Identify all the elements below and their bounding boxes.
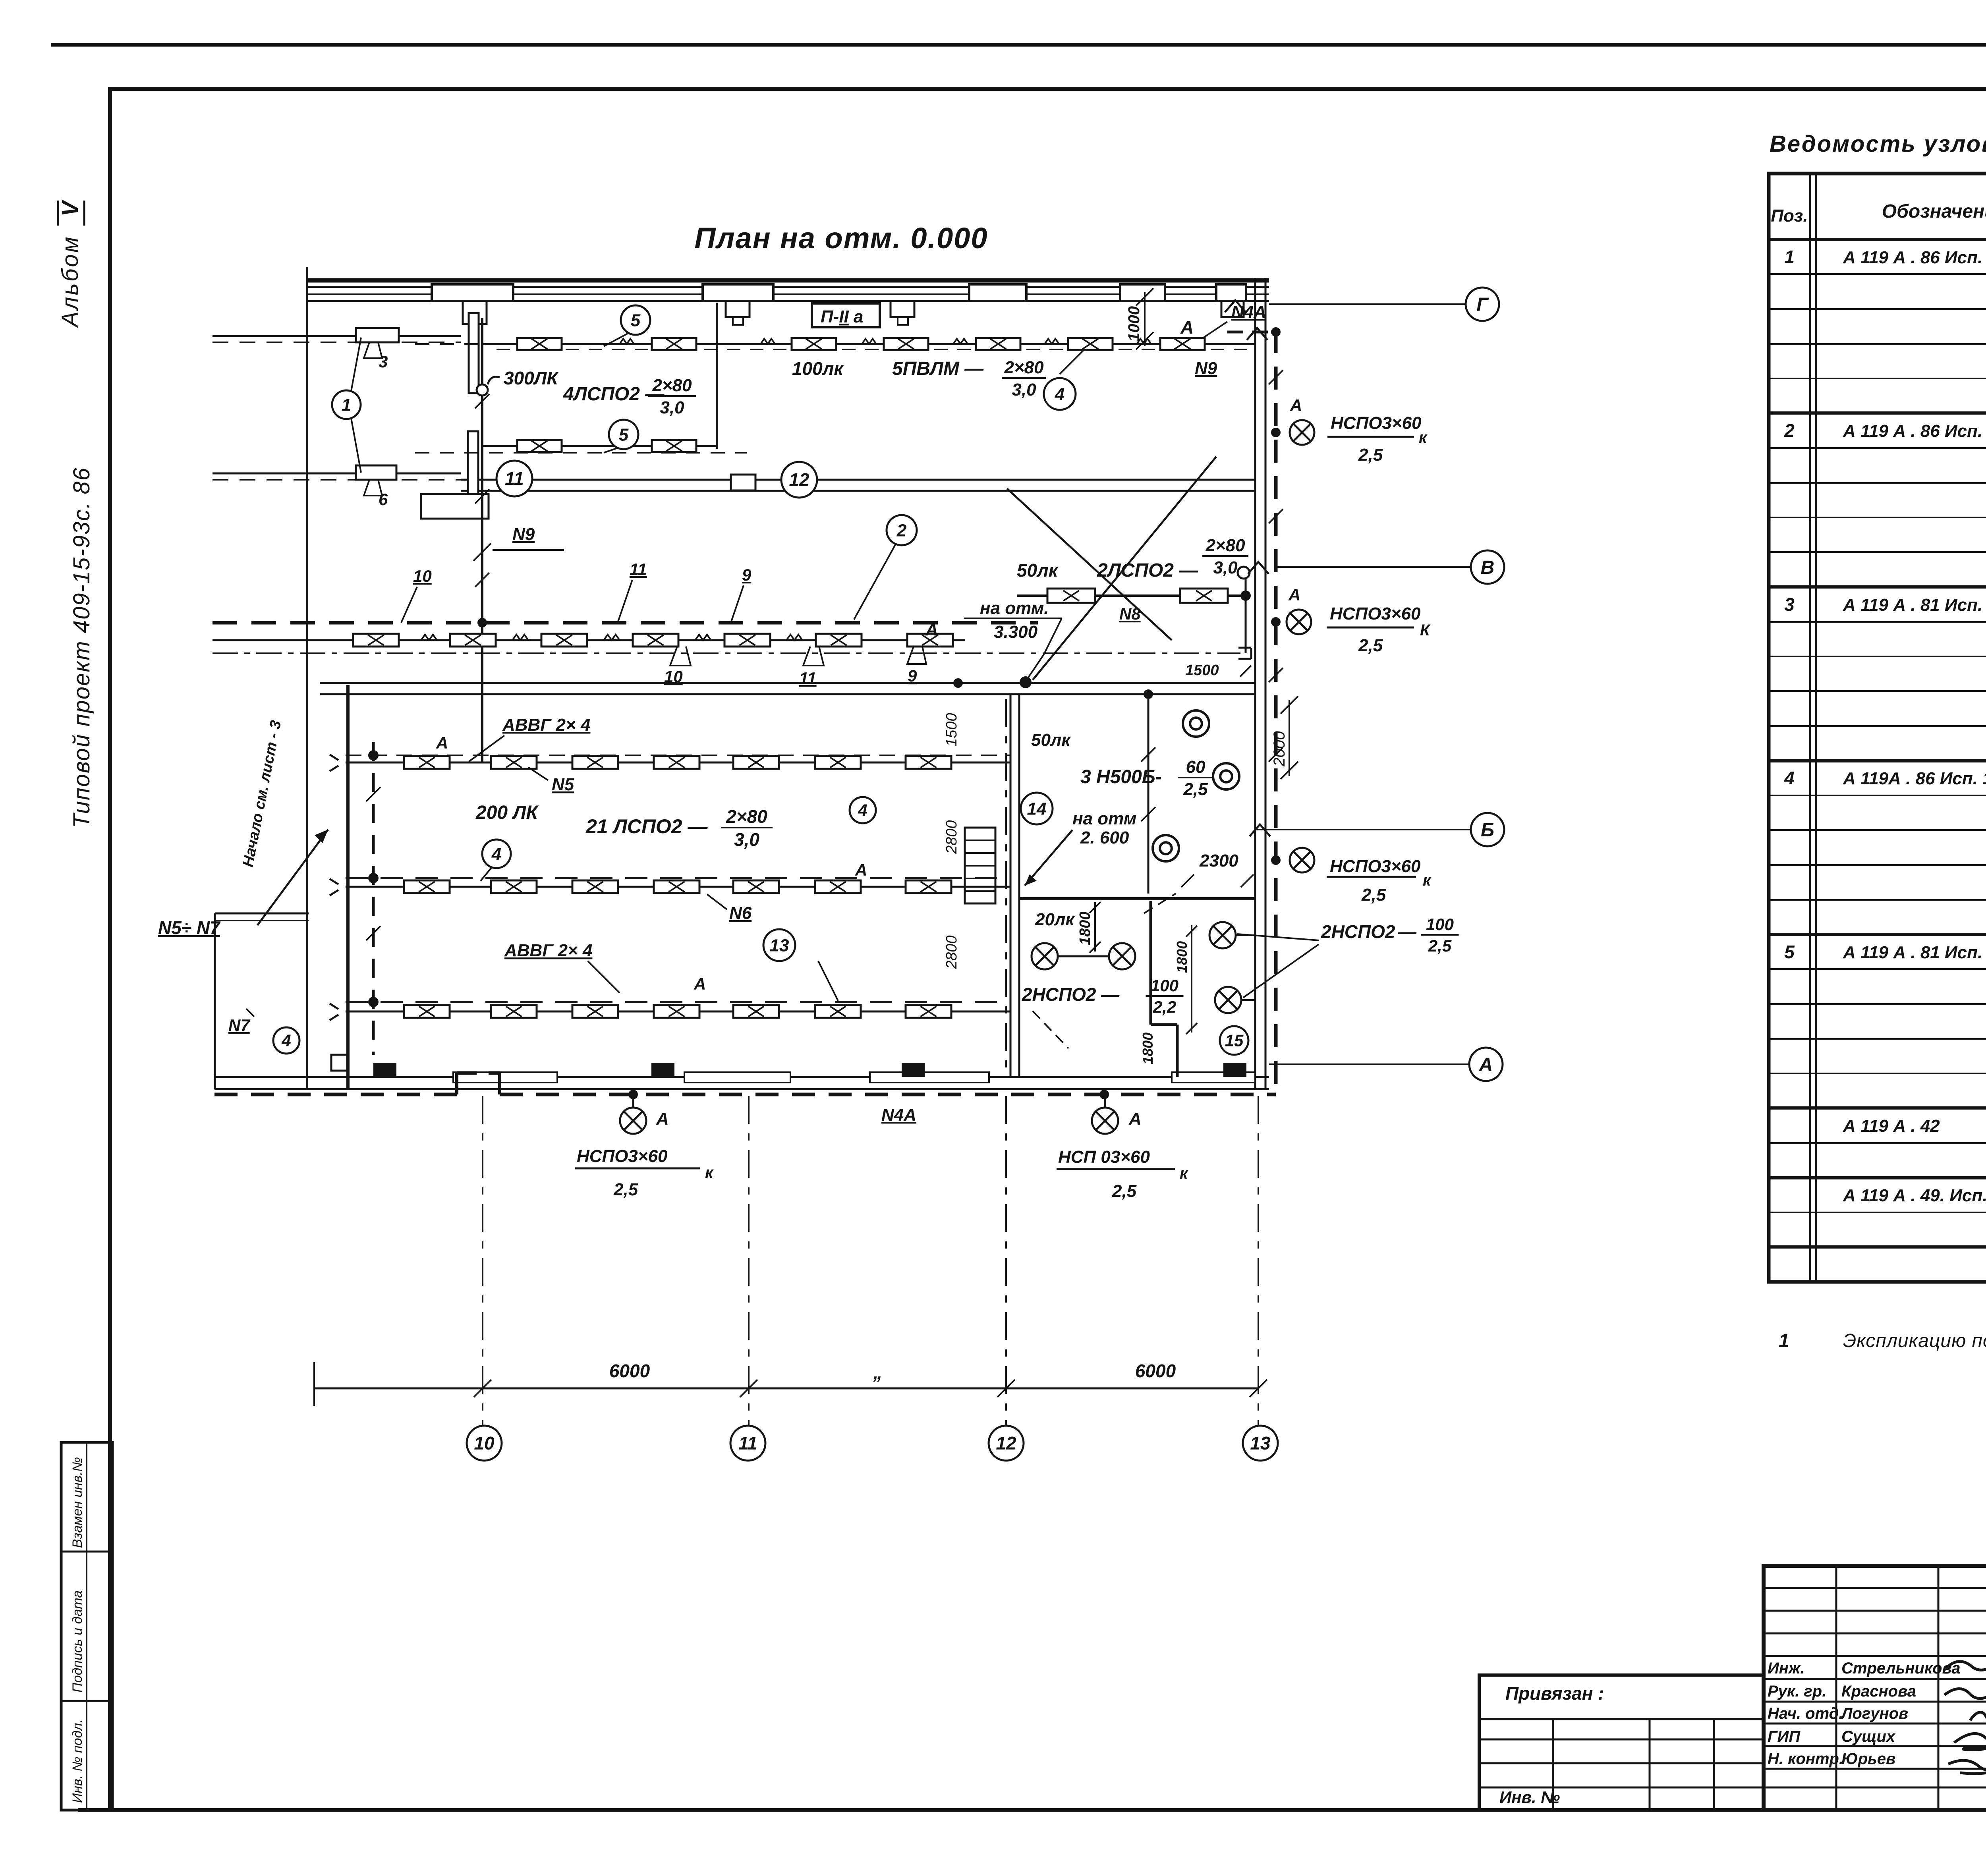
svg-text:2ЛСПО2 —: 2ЛСПО2 — [1097,560,1198,581]
svg-text:21 ЛСПО2 —: 21 ЛСПО2 — [585,815,708,838]
small junction dots on feeders [953,678,963,688]
axis verticals below building [482,1096,483,1426]
svg-text:Инж.: Инж. [1768,1660,1805,1677]
left exterior wall [306,267,308,1089]
svg-text:14: 14 [1027,799,1047,818]
svg-text:НСПО3×60: НСПО3×60 [1330,604,1421,623]
axis leader A [1269,1063,1469,1065]
2LSPO2 row [1017,594,1246,597]
svg-text:А: А [925,620,938,639]
svg-text:2800: 2800 [943,935,960,969]
svg-text:НСП 03×60: НСП 03×60 [1058,1147,1150,1167]
svg-text:А: А [656,1109,669,1129]
room circle 13 [763,929,795,961]
svg-text:2,5: 2,5 [1358,636,1383,655]
svg-text:3,0: 3,0 [734,829,759,850]
svg-text:Сущих: Сущих [1841,1728,1896,1745]
top wall window sills [432,284,513,301]
dimension line bottom [314,1388,1258,1390]
svg-text:4: 4 [858,801,867,820]
axis leader V [1276,566,1471,568]
svg-text:А: А [1288,585,1300,604]
labels below central feeder leaders [670,647,691,666]
svg-text:1000: 1000 [1125,306,1143,342]
axis circle 4 row2 right [850,797,876,823]
table frame [1769,174,1986,1282]
svg-text:3: 3 [1784,594,1795,615]
svg-text:N6: N6 [729,903,752,923]
bottom cable N4A heavy dashed [214,1093,457,1096]
bottom axis circles [467,1426,502,1461]
svg-text:—: — [1398,921,1417,942]
svg-text:12: 12 [789,469,809,490]
signatures squiggles [1944,1661,1986,1670]
svg-text:В: В [1481,557,1495,578]
axis leader G [1269,303,1466,305]
table header row [1769,238,1986,241]
svg-text:2НСПО2 —: 2НСПО2 — [1022,984,1120,1005]
svg-text:2×80: 2×80 [652,376,692,395]
svg-text:2,5: 2,5 [613,1180,638,1199]
svg-text:6000: 6000 [1135,1361,1176,1381]
svg-text:3: 3 [379,352,388,371]
wall between room 14 and lower [1019,897,1255,900]
hall row N5 [346,762,1010,764]
bottom lamp left [620,1108,646,1134]
table rows [1769,273,1986,275]
svg-text:4: 4 [491,844,501,864]
hall row N6 [346,886,1010,888]
svg-text:3,0: 3,0 [660,398,684,417]
right cable corner top [1227,331,1276,334]
svg-text:2×80: 2×80 [1205,536,1245,555]
svg-text:А: А [855,861,867,879]
svg-text:1500: 1500 [943,713,960,747]
room5 lower luminaire row [482,445,717,447]
title block outer [1764,1566,1986,1810]
svg-text:60: 60 [1186,757,1206,777]
svg-text:2,5: 2,5 [1358,445,1383,465]
title block staff rows [1764,1678,1986,1680]
svg-text:4: 4 [281,1031,291,1050]
right cable heavy dashed [1274,330,1278,1089]
bottom exterior wall [214,1076,1269,1078]
svg-text:на отм.: на отм. [980,598,1049,618]
svg-text:Юрьев: Юрьев [1841,1750,1895,1768]
svg-text:2×80: 2×80 [726,806,767,827]
svg-text:2000: 2000 [1271,731,1288,767]
svg-text:Привязан :: Привязан : [1505,1683,1604,1704]
svg-text:2,2: 2,2 [1153,998,1176,1016]
svg-text:1500: 1500 [1185,662,1219,679]
svg-text:А: А [1290,396,1302,415]
svg-text:15: 15 [1225,1031,1244,1050]
svg-text:Н. контр.: Н. контр. [1768,1750,1843,1768]
svg-text:13: 13 [770,936,789,955]
svg-text:Взамен инв.№: Взамен инв.№ [70,1457,85,1548]
room15 dims 1800 [1191,925,1192,1033]
svg-text:1: 1 [342,395,351,415]
room15 lamps [1209,922,1236,948]
svg-text:11: 11 [630,560,647,579]
svg-text:А 119 А . 49. Исп. 2 .: А 119 А . 49. Исп. 2 . [1843,1186,1986,1205]
junction dot na otm [1020,676,1032,688]
svg-text:50лк: 50лк [1017,560,1059,581]
wire riser N9 vertical [481,455,483,623]
svg-text:1: 1 [1779,1330,1789,1351]
svg-text:2800: 2800 [943,820,960,854]
vertical wall right of hall [1010,694,1012,1077]
svg-text:к: к [1180,1165,1188,1182]
svg-text:5: 5 [1784,942,1795,962]
svg-text:300ЛК: 300ЛК [504,368,559,388]
caret hook marks on right wall [1247,328,1267,340]
svg-text:3,0: 3,0 [1012,380,1036,400]
room circle 11 [496,461,532,496]
svg-text:А: А [436,733,448,752]
svg-text:3 Н500Б-: 3 Н500Б- [1080,766,1162,787]
svg-text:2,5: 2,5 [1112,1181,1137,1201]
room circle 15 [1220,1026,1248,1055]
svg-text:N4А: N4А [881,1105,916,1125]
tick marks on risers [475,394,489,408]
svg-text:А 119А . 86 Исп. 1: А 119А . 86 Исп. 1 [1843,769,1986,788]
beam line with block 3 [213,335,461,337]
svg-text:100: 100 [1426,915,1454,934]
partition pilasters left of 11 [469,313,479,393]
svg-text:1800: 1800 [1174,941,1190,973]
room circle 14 [1021,793,1053,824]
axis circle 1 with leaders [332,390,361,419]
svg-text:9: 9 [908,666,917,685]
squiggle marks between feeder lums [421,635,437,640]
svg-text:А 119 А . 86 Исп. 4: А 119 А . 86 Исп. 4 [1843,421,1986,441]
cable end bracket [1238,647,1251,649]
axis circle 4 hall [482,840,511,868]
svg-text:А 119 А . 81 Исп. 1: А 119 А . 81 Исп. 1 [1843,595,1986,615]
right lamp 2 [1287,610,1311,634]
axis circle 4 row3 [273,1027,299,1054]
svg-text:Ведомость узлов установки э: Ведомость узлов установки электрического… [1770,131,1986,157]
svg-text:План на отм. 0.000: План на отм. 0.000 [694,222,988,255]
svg-text:6000: 6000 [609,1361,650,1381]
room14 wire [1148,699,1149,894]
svg-text:на отм: на отм [1072,809,1136,828]
privyazan box [1479,1675,1764,1810]
central feeder lower dash-dot [213,652,1240,654]
svg-text:4: 4 [1784,768,1795,788]
bottom lamp right [1092,1108,1118,1134]
svg-text:2,5: 2,5 [1183,780,1208,799]
svg-text:1800: 1800 [1077,911,1093,945]
svg-text:10: 10 [664,667,683,686]
vertical dim 1000 [1144,292,1146,346]
svg-text:N9: N9 [1195,359,1217,378]
svg-text:5: 5 [619,425,629,444]
svg-text:Краснова: Краснова [1841,1683,1916,1700]
right exterior wall [1254,278,1256,1089]
hall row N7 [346,1011,1010,1013]
svg-text:Логунов: Логунов [1840,1705,1908,1722]
svg-text:200 ЛК: 200 ЛК [475,802,539,823]
frame bottom extension left [78,1808,110,1812]
sag marks top row [620,339,634,344]
svg-text:N5÷ N7: N5÷ N7 [158,917,221,938]
svg-text:2НСПО2: 2НСПО2 [1321,921,1395,942]
svg-text:Экспликацию помещений с: Экспликацию помещений см. лист ЭО-3. [1843,1330,1986,1351]
top rule line [51,43,1986,47]
wall hooks at hall rows [330,755,338,771]
svg-text:2,5: 2,5 [1428,936,1452,955]
svg-text:N8: N8 [1119,604,1141,623]
axis vertical 12 inside [1005,699,1007,1077]
svg-text:12: 12 [996,1433,1016,1453]
svg-text:6: 6 [379,490,388,509]
room 20lk lamps [1031,955,1122,957]
svg-text:N4А: N4А [1231,302,1266,322]
svg-text:А: А [1180,317,1194,338]
svg-text:А: А [1479,1054,1493,1075]
svg-text:1800: 1800 [1140,1033,1156,1064]
svg-text:3,0: 3,0 [1213,558,1238,577]
svg-text:Б: Б [1481,820,1494,841]
svg-text:НСПО3×60: НСПО3×60 [577,1146,668,1166]
svg-text:20лк: 20лк [1035,910,1075,929]
svg-text:к: к [705,1164,714,1181]
svg-text:А 119 А . 81 Исп. 1: А 119 А . 81 Исп. 1 [1843,943,1986,962]
room 15 walls [1149,901,1152,1025]
top exterior wall [308,278,1269,283]
svg-text:10: 10 [474,1433,495,1453]
room circle 12 [781,462,817,498]
svg-text:АВВГ 2× 4: АВВГ 2× 4 [502,715,590,735]
svg-text:Г: Г [1476,294,1489,315]
svg-text:2: 2 [896,521,907,540]
interior wall below rooms 11-12 [461,479,1255,481]
svg-text:N7: N7 [228,1016,250,1035]
svg-text:Альбом: Альбом [57,235,83,328]
svg-text:5ПВЛМ —: 5ПВЛМ — [892,358,984,379]
svg-text:Подпись и дата: Подпись и дата [70,1590,85,1693]
svg-text:К: К [1420,621,1431,639]
room5+corridor upper luminaire row [482,343,1255,345]
svg-text:Обозначение: Обозначение [1882,201,1986,222]
label P-IIa box [812,303,880,327]
interior wall hall top [320,682,1255,684]
svg-text:2. 600: 2. 600 [1080,828,1129,847]
svg-text:4ЛСПО2 —: 4ЛСПО2 — [563,384,665,405]
svg-text:5: 5 [631,311,641,330]
svg-text:9: 9 [742,566,752,584]
partition between rooms 11 and 12 [716,303,718,449]
axis circle 4 corridor [1044,378,1076,410]
svg-text:11: 11 [505,468,524,489]
svg-text:А 119 А . 42: А 119 А . 42 [1843,1116,1940,1136]
svg-text:100: 100 [1151,976,1178,995]
svg-text:А: А [694,975,706,993]
svg-text:N5: N5 [552,775,574,794]
title block: pre-rows above staff [1764,1587,1986,1589]
door swing dashes [1144,894,1176,913]
svg-text:13: 13 [1250,1433,1271,1453]
svg-text:11: 11 [738,1433,757,1453]
axis circles 5 [621,305,650,335]
svg-text:100лк: 100лк [792,358,844,379]
svg-text:10: 10 [413,567,432,585]
title block staff columns [1835,1566,1837,1810]
svg-text:Типовой проект 409-15-93с. 8: Типовой проект 409-15-93с. 86 [69,467,95,828]
left inner wall lower [346,685,350,1089]
svg-text:к: к [1419,429,1428,446]
central feeder heavy dashed [213,621,1038,625]
hall feeder vertical dashed [372,742,375,1055]
right lamp 3 [1290,848,1314,872]
axis leader B [1257,829,1471,830]
svg-text:N9: N9 [512,525,535,544]
diagonal leaders crossing [1007,488,1172,640]
dim 2000 right [1289,700,1290,776]
central feeder luminaire line [213,639,965,641]
svg-text:Инв. № подл.: Инв. № подл. [70,1719,85,1803]
svg-text:НСПО3×60: НСПО3×60 [1331,413,1422,433]
junction hall row1 [368,750,379,760]
top wall pier stubs below [463,301,487,324]
svg-text:2: 2 [1784,420,1795,441]
right lamp 1 [1290,420,1314,445]
bottom-left wall protrusion [214,913,216,1089]
svg-text:11: 11 [799,669,817,687]
dim 1800 rot [1094,902,1096,952]
stairs [965,828,995,903]
svg-text:2300: 2300 [1199,851,1238,870]
svg-text:Инв. №: Инв. № [1499,1788,1560,1807]
svg-text:к: к [1423,872,1432,889]
table column lines [1809,174,1811,1282]
svg-text:Поз.: Поз. [1771,206,1808,226]
svg-text:Стрельникова: Стрельникова [1841,1660,1960,1677]
svg-text:50лк: 50лк [1031,730,1071,750]
svg-text:Рук. гр.: Рук. гр. [1768,1683,1826,1700]
svg-text:ГИП: ГИП [1768,1728,1801,1745]
svg-text:2,5: 2,5 [1361,885,1386,905]
svg-text:П-II а: П-II а [821,307,863,326]
cable riser room 5 [481,318,483,762]
pier at bottom of partition 11-12 [731,475,755,490]
svg-text:4: 4 [1055,384,1064,404]
bottom wall piers [373,1063,396,1077]
beam line with block 6 [213,473,461,475]
svg-text:Нач. отд.: Нач. отд. [1768,1705,1843,1722]
svg-text:2×80: 2×80 [1004,358,1044,377]
svg-text:АВВГ 2× 4: АВВГ 2× 4 [504,941,592,960]
room14 lamps [1183,710,1209,737]
svg-text:V: V [57,199,83,216]
svg-text:А 119 А . 86 Исп. 2: А 119 А . 86 Исп. 2 [1843,248,1986,267]
svg-text:А: А [1128,1109,1142,1129]
svg-text:3.300: 3.300 [994,622,1038,642]
svg-text:1: 1 [1784,247,1795,267]
left bottom strip [61,1442,112,1810]
svg-text:„: „ [873,1362,883,1383]
svg-text:НСПО3×60: НСПО3×60 [1330,857,1421,876]
